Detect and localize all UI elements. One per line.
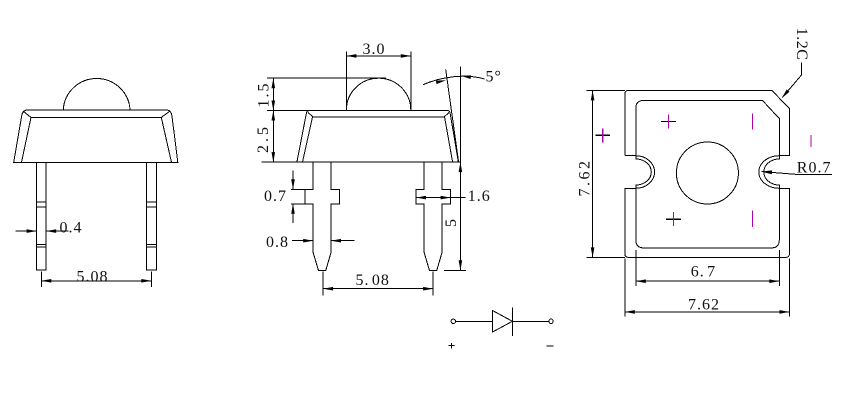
dim 0.7 arrow lines (292, 170, 294, 223)
angle arc arrowhead left (436, 79, 447, 85)
left lead front view (37, 162, 47, 270)
body base / extension line (262, 161, 461, 163)
LED body outline front view (14, 110, 178, 162)
LED body outline side view (297, 111, 459, 163)
extension line at body top level (267, 110, 309, 112)
svg-text:0.7: 0.7 (264, 188, 287, 205)
dim 7.62 bottom line (625, 311, 790, 313)
svg-text:6. 7: 6. 7 (691, 264, 716, 281)
dim 6.7 line (636, 280, 780, 282)
1.2C leader arrowhead (780, 89, 789, 99)
dim 7.62 vertical arrowheads (591, 90, 595, 100)
svg-text:7.62: 7.62 (688, 296, 720, 313)
R0.7 leader line (762, 172, 833, 175)
left lead with crimp wing side view (305, 162, 340, 270)
LED body bevel line front view (22, 117, 172, 162)
dim 3.0 extension lines (346, 51, 410, 109)
svg-text:0.4: 0.4 (60, 220, 83, 237)
svg-text:5. 08: 5. 08 (356, 272, 390, 289)
dim 0.4 arrowheads (27, 229, 37, 233)
svg-text:2.5: 2.5 (255, 124, 272, 153)
angle arc arrowhead right (461, 74, 471, 79)
dim 7.62 bottom extension lines (625, 259, 790, 317)
angle reference slant line (446, 69, 459, 162)
dim 7.62 vertical extension lines (586, 90, 625, 257)
lead tip extension line (444, 269, 466, 271)
body corner bevel right (161, 112, 169, 118)
body corner bevel left (24, 112, 31, 118)
polarity minus bottom-right (752, 211, 754, 227)
dim 0.8 arrowheads (303, 239, 313, 243)
svg-text:7.62: 7.62 (577, 159, 594, 197)
dim 5.08 side view line (323, 288, 433, 290)
polarity plus bottom-left (666, 212, 681, 226)
dim 5.08 front view extension lines (41, 271, 151, 287)
svg-text:5°: 5° (486, 69, 502, 86)
diode minus mark (547, 345, 554, 347)
angle dimension arc (423, 76, 485, 85)
dim 1.5/2.5 vertical line (272, 78, 274, 162)
dim 1.5/2.5 arrowheads (272, 78, 276, 88)
dim 5.08 side view extension lines (323, 272, 433, 296)
LED dome front view (63, 79, 130, 110)
right lead front view (147, 162, 157, 270)
LED dome side view (346, 78, 410, 110)
body corner bevel right side view (444, 113, 449, 118)
diode cathode bar (512, 307, 514, 336)
svg-text:3.0: 3.0 (363, 41, 386, 58)
right lead with crimp wing side view (416, 162, 451, 270)
dim 0.7 arrowheads (291, 179, 295, 189)
dome top tangent extension line (267, 77, 386, 79)
1.2C leader line (782, 63, 801, 98)
polarity minus outside-right (810, 135, 812, 147)
slug outer outline top view (625, 90, 790, 257)
svg-text:0.8: 0.8 (266, 234, 289, 251)
dim 1.6 line (416, 197, 466, 199)
dim 6.7 arrowheads (636, 279, 646, 283)
polarity plus outside-left (596, 128, 611, 142)
dim 7.62 vertical line (592, 90, 594, 257)
polarity plus top-left (661, 115, 676, 129)
R0.7 leader arrowhead (761, 170, 772, 175)
dim 3.0 line (346, 55, 410, 57)
svg-text:5.08: 5.08 (77, 268, 109, 285)
svg-text:1.5: 1.5 (255, 82, 272, 108)
svg-text:R0.7: R0.7 (797, 159, 832, 176)
body corner bevel left side view (308, 112, 314, 117)
dim 0.4 lines (15, 230, 68, 232)
dim 6.7 extension lines (636, 250, 780, 286)
dim 5.08 side arrowheads (323, 287, 333, 291)
svg-text:1.2C: 1.2C (793, 28, 810, 61)
dim 5.08 front arrowheads (41, 279, 51, 283)
diode cathode wire (513, 320, 549, 322)
dim 0.7 extension lines (291, 189, 305, 204)
dim 3.0 arrowheads (346, 54, 356, 58)
crimp marks left lead (37, 202, 47, 247)
diode plus mark (448, 343, 454, 348)
dim 7.62 bottom arrowheads (625, 310, 635, 314)
diode anode wire (456, 320, 493, 322)
svg-text:5: 5 (443, 218, 460, 227)
LED body bevel line side view (303, 117, 453, 162)
slug inner outline top view (636, 100, 780, 248)
dim 1.6 arrowheads (416, 196, 426, 200)
polarity minus top-right (752, 114, 754, 130)
diode anode terminal circle (451, 319, 455, 323)
diode triangle (493, 311, 513, 332)
dim 5 vertical line / angle reference line (459, 67, 461, 271)
dim 0.8 lines (292, 240, 355, 242)
dim 5.08 front view line (41, 280, 151, 282)
svg-text:1.6: 1.6 (468, 188, 491, 205)
dim 5 arrowheads (459, 162, 463, 172)
diode cathode terminal circle (549, 319, 553, 323)
crimp marks right lead (147, 202, 157, 247)
center lens circle (676, 142, 738, 204)
